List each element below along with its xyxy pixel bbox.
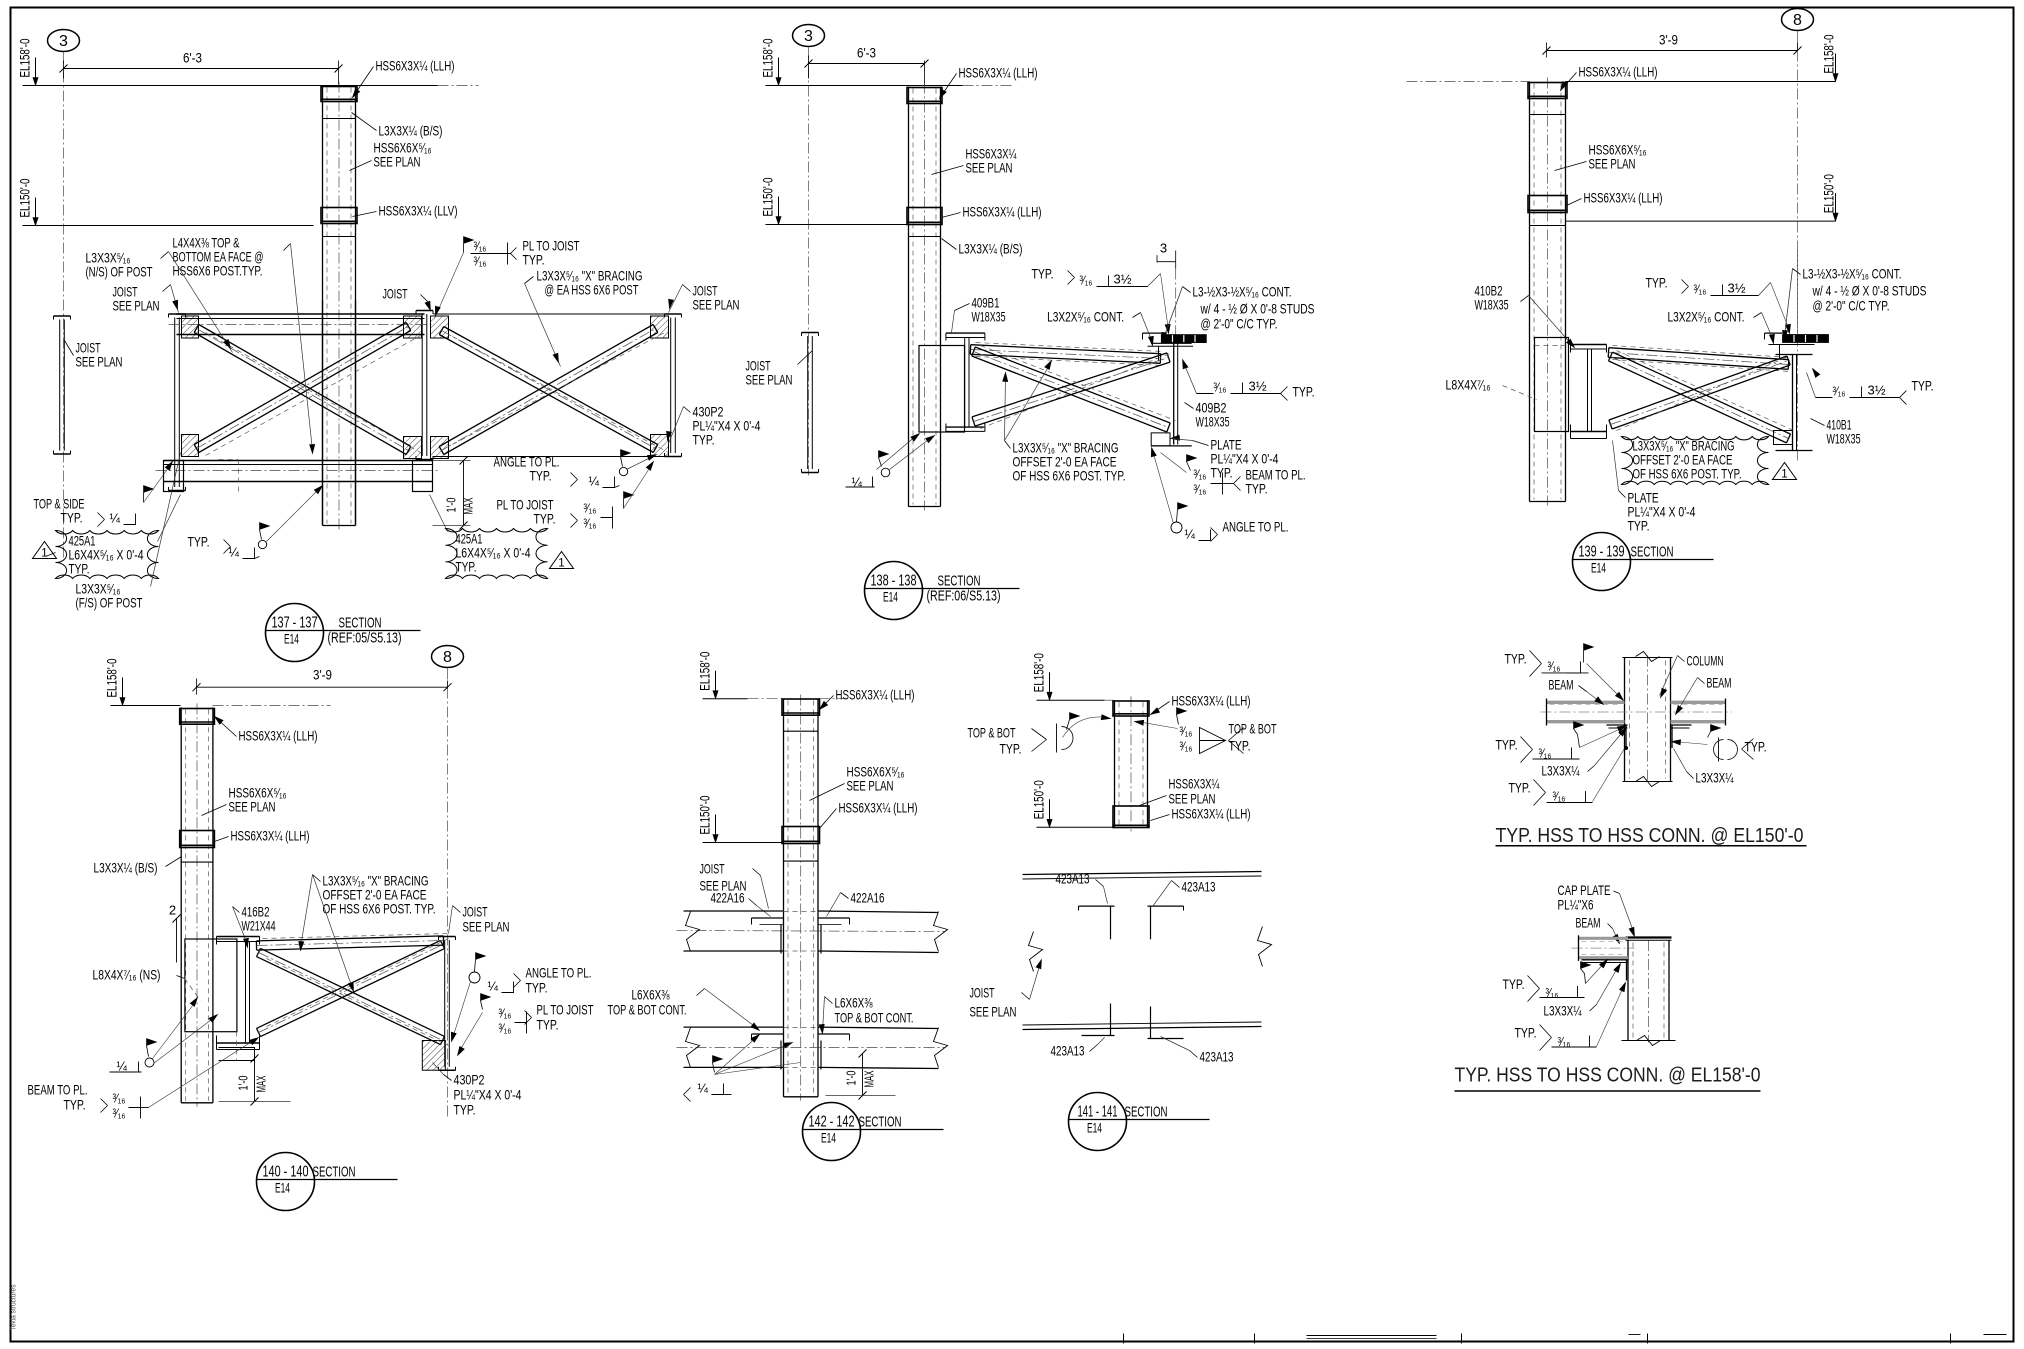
svg-text:SEE PLAN: SEE PLAN	[76, 354, 123, 370]
svg-text:³⁄₁₆: ³⁄₁₆	[113, 1107, 126, 1121]
svg-text:L3-½X3-½X⁵⁄₁₆ CONT.: L3-½X3-½X⁵⁄₁₆ CONT.	[1193, 284, 1292, 300]
svg-text:PL TO JOIST: PL TO JOIST	[537, 1002, 594, 1018]
svg-text:W18X35: W18X35	[972, 309, 1006, 325]
svg-text:(F/S) OF POST: (F/S) OF POST	[76, 595, 143, 611]
svg-text:(N/S) OF POST: (N/S) OF POST	[86, 264, 153, 280]
svg-text:EL158'-0: EL158'-0	[761, 39, 776, 78]
svg-text:L3X3X¼ (B/S): L3X3X¼ (B/S)	[94, 860, 158, 876]
svg-text:3: 3	[59, 33, 68, 50]
svg-text:SECTION: SECTION	[1631, 544, 1674, 561]
svg-text:423A13: 423A13	[1200, 1049, 1234, 1065]
svg-text:³⁄₁₆: ³⁄₁₆	[1194, 483, 1207, 497]
svg-text:TYP.: TYP.	[693, 432, 715, 448]
svg-text:@ 2'-0" C/C TYP.: @ 2'-0" C/C TYP.	[1201, 316, 1278, 332]
svg-text:137 - 137: 137 - 137	[272, 615, 318, 632]
svg-text:BEAM: BEAM	[1549, 677, 1574, 693]
svg-text:³⁄₁₆: ³⁄₁₆	[474, 240, 487, 254]
svg-text:MAX: MAX	[461, 497, 476, 514]
svg-text:L6X4X⁵⁄₁₆ X 0'-4: L6X4X⁵⁄₁₆ X 0'-4	[69, 548, 144, 563]
svg-text:L3X3X¼ (B/S): L3X3X¼ (B/S)	[379, 123, 443, 139]
svg-text:³⁄₁₆: ³⁄₁₆	[1180, 725, 1193, 739]
svg-text:EL150'-0: EL150'-0	[761, 178, 776, 217]
svg-text:W18X35: W18X35	[1196, 414, 1230, 430]
svg-text:1'-0: 1'-0	[844, 1071, 859, 1086]
svg-text:@ 2'-0" C/C TYP.: @ 2'-0" C/C TYP.	[1813, 298, 1890, 314]
svg-text:HSS6X3X¼ (LLV): HSS6X3X¼ (LLV)	[379, 203, 458, 219]
svg-text:SEE PLAN: SEE PLAN	[229, 799, 276, 815]
svg-text:COLUMN: COLUMN	[1687, 653, 1724, 669]
svg-text:EL150'-0: EL150'-0	[1822, 174, 1837, 213]
svg-text:422A16: 422A16	[851, 890, 885, 906]
svg-text:HSS6X3X¼ (LLH): HSS6X3X¼ (LLH)	[839, 800, 918, 816]
svg-text:TYP.: TYP.	[534, 511, 556, 527]
svg-text:TYP.: TYP.	[1505, 651, 1527, 667]
svg-text:TYP.: TYP.	[188, 534, 210, 550]
svg-text:HSS6X3X¼ (LLH): HSS6X3X¼ (LLH)	[959, 65, 1038, 81]
svg-text:HSS6X3X¼ (LLH): HSS6X3X¼ (LLH)	[376, 58, 455, 74]
svg-text:EL158'-0: EL158'-0	[18, 39, 33, 78]
svg-text:E14: E14	[883, 590, 898, 605]
svg-text:2: 2	[169, 903, 176, 918]
svg-text:TYP.: TYP.	[537, 1017, 559, 1033]
svg-text:¼: ¼	[1185, 528, 1196, 542]
svg-text:W18X35: W18X35	[1827, 431, 1861, 447]
svg-text:ANGLE TO PL.: ANGLE TO PL.	[526, 965, 592, 981]
svg-text:¼: ¼	[488, 980, 499, 994]
svg-text:OF HSS 6X6 POST. TYP.: OF HSS 6X6 POST. TYP.	[1013, 468, 1126, 484]
svg-text:HSS6X3X¼ (LLH): HSS6X3X¼ (LLH)	[1584, 190, 1663, 206]
svg-text:³⁄₁₆: ³⁄₁₆	[1214, 381, 1227, 395]
svg-text:L3X3X¼: L3X3X¼	[1542, 763, 1580, 779]
svg-text:PL¼"X4 X 0'-4: PL¼"X4 X 0'-4	[454, 1087, 522, 1103]
svg-text:423A13: 423A13	[1051, 1043, 1085, 1059]
svg-text:³⁄₁₆: ³⁄₁₆	[499, 1007, 512, 1021]
svg-text:¼: ¼	[117, 1060, 128, 1074]
svg-text:L6X6X⅜: L6X6X⅜	[835, 995, 873, 1011]
svg-text:6'-3: 6'-3	[183, 50, 202, 66]
svg-text:8: 8	[443, 649, 452, 666]
svg-text:E14: E14	[1087, 1121, 1102, 1136]
svg-text:W18X35: W18X35	[1475, 297, 1509, 313]
svg-text:MAX: MAX	[862, 1070, 877, 1087]
svg-text:³⁄₁₆: ³⁄₁₆	[1553, 790, 1566, 804]
svg-text:TOP & BOT: TOP & BOT	[1229, 721, 1277, 737]
svg-text:TYP. HSS TO HSS CONN. @ EL150': TYP. HSS TO HSS CONN. @ EL150'-0	[1496, 825, 1804, 847]
svg-text:SEE PLAN: SEE PLAN	[1169, 791, 1216, 807]
svg-text:TYP.: TYP.	[61, 510, 83, 526]
svg-text:L3-½X3-½X⁵⁄₁₆ CONT.: L3-½X3-½X⁵⁄₁₆ CONT.	[1803, 266, 1902, 282]
svg-text:HSS6X3X¼ (LLH): HSS6X3X¼ (LLH)	[963, 204, 1042, 220]
svg-text:EL150'-0: EL150'-0	[698, 796, 713, 835]
svg-text:TYP.: TYP.	[1032, 266, 1054, 282]
svg-text:EL158'-0: EL158'-0	[105, 659, 120, 698]
svg-text:ANGLE TO PL.: ANGLE TO PL.	[1223, 519, 1289, 535]
svg-text:SEE PLAN: SEE PLAN	[113, 298, 160, 314]
svg-text:1'-0: 1'-0	[236, 1076, 251, 1091]
svg-text:³⁄₁₆: ³⁄₁₆	[1548, 660, 1561, 674]
svg-text:TYP. HSS TO HSS CONN. @ EL158': TYP. HSS TO HSS CONN. @ EL158'-0	[1455, 1065, 1761, 1087]
svg-text:L3X3X¼: L3X3X¼	[1544, 1002, 1582, 1018]
svg-text:423A13: 423A13	[1056, 871, 1090, 887]
svg-text:EL150'-0: EL150'-0	[1032, 780, 1047, 819]
svg-text:SEE PLAN: SEE PLAN	[374, 154, 421, 170]
svg-text:W21X44: W21X44	[242, 918, 276, 934]
svg-text:³⁄₁₆: ³⁄₁₆	[1694, 283, 1707, 297]
svg-text:TYP.: TYP.	[64, 1097, 86, 1113]
svg-text:425A1: 425A1	[456, 532, 483, 547]
svg-text:141 - 141: 141 - 141	[1078, 1104, 1118, 1121]
svg-text:TYP.: TYP.	[1646, 275, 1668, 291]
svg-text:SEE PLAN: SEE PLAN	[693, 297, 740, 313]
svg-text:³⁄₁₆: ³⁄₁₆	[1833, 385, 1846, 399]
svg-text:HSS6X3X¼ (LLH): HSS6X3X¼ (LLH)	[1172, 693, 1251, 709]
svg-text:w/ 4 - ½ Ø X 0'-8 STUDS: w/ 4 - ½ Ø X 0'-8 STUDS	[1200, 301, 1315, 317]
svg-text:TYP.: TYP.	[1745, 739, 1767, 755]
svg-text:142 - 142: 142 - 142	[809, 1114, 855, 1131]
svg-text:BEAM: BEAM	[1707, 675, 1732, 691]
svg-text:(REF:06/S5.13): (REF:06/S5.13)	[927, 588, 1001, 605]
svg-text:JOIST: JOIST	[383, 286, 408, 302]
svg-text:³⁄₁₆: ³⁄₁₆	[584, 517, 597, 531]
svg-text:3: 3	[1160, 241, 1167, 256]
svg-text:139 - 139: 139 - 139	[1579, 544, 1625, 561]
svg-text:TOP & BOT CONT.: TOP & BOT CONT.	[835, 1010, 914, 1026]
svg-text:SECTION: SECTION	[313, 1164, 356, 1181]
svg-text:SEE PLAN: SEE PLAN	[847, 778, 894, 794]
svg-text:423A13: 423A13	[1182, 879, 1216, 895]
svg-text:¼: ¼	[110, 512, 121, 526]
svg-text:(REF:05/S5.13): (REF:05/S5.13)	[328, 630, 402, 647]
svg-text:TYP.: TYP.	[454, 1102, 476, 1118]
svg-text:³⁄₁₆: ³⁄₁₆	[584, 502, 597, 516]
svg-text:³⁄₁₆: ³⁄₁₆	[1194, 468, 1207, 482]
svg-text:TYP.: TYP.	[1496, 737, 1518, 753]
svg-text:JOIST: JOIST	[463, 904, 488, 920]
svg-text:TYP.: TYP.	[69, 562, 90, 577]
svg-text:Tekla structures: Tekla structures	[11, 1284, 18, 1330]
svg-text:JOIST: JOIST	[970, 985, 995, 1001]
svg-text:L3X3X¼ (B/S): L3X3X¼ (B/S)	[959, 241, 1023, 257]
svg-text:3½: 3½	[1868, 383, 1886, 398]
svg-text:JOIST: JOIST	[700, 861, 725, 877]
svg-text:HSS6X6 POST.TYP.: HSS6X6 POST.TYP.	[173, 263, 263, 279]
svg-text:SEE PLAN: SEE PLAN	[966, 160, 1013, 176]
svg-text:TYP.: TYP.	[530, 468, 552, 484]
svg-text:L8X4X⁷⁄₁₆: L8X4X⁷⁄₁₆	[1446, 377, 1491, 393]
svg-text:HSS6X3X¼ (LLH): HSS6X3X¼ (LLH)	[836, 687, 915, 703]
svg-text:HSS6X3X¼ (LLH): HSS6X3X¼ (LLH)	[1172, 806, 1251, 822]
svg-text:TYP.: TYP.	[1515, 1025, 1537, 1041]
svg-text:TYP.: TYP.	[1246, 481, 1268, 497]
svg-text:1: 1	[1781, 469, 1787, 481]
svg-text:³⁄₁₆: ³⁄₁₆	[113, 1092, 126, 1106]
svg-text:SEE PLAN: SEE PLAN	[1589, 156, 1636, 172]
svg-text:³⁄₁₆: ³⁄₁₆	[1180, 740, 1193, 754]
svg-text:L3X2X⁵⁄₁₆ CONT.: L3X2X⁵⁄₁₆ CONT.	[1047, 309, 1124, 325]
svg-text:TYP.: TYP.	[1211, 465, 1233, 481]
svg-text:MAX: MAX	[254, 1075, 269, 1092]
svg-text:L8X4X⁷⁄₁₆ (NS): L8X4X⁷⁄₁₆ (NS)	[93, 967, 161, 983]
svg-text:138 - 138: 138 - 138	[871, 573, 917, 590]
svg-text:TOP & BOT CONT.: TOP & BOT CONT.	[608, 1002, 687, 1018]
svg-text:1'-0: 1'-0	[444, 498, 459, 513]
svg-text:³⁄₁₆: ³⁄₁₆	[1539, 747, 1552, 761]
svg-text:TYP.: TYP.	[1293, 384, 1315, 400]
svg-text:³⁄₁₆: ³⁄₁₆	[499, 1022, 512, 1036]
svg-text:L3X3X¼: L3X3X¼	[1696, 770, 1734, 786]
svg-text:1: 1	[41, 548, 47, 560]
svg-text:PL¼"X6: PL¼"X6	[1558, 897, 1594, 913]
svg-text:¼: ¼	[698, 1082, 709, 1096]
svg-text:TYP.: TYP.	[1912, 378, 1934, 394]
svg-text:EL158'-0: EL158'-0	[1032, 653, 1047, 692]
svg-text:TYP.: TYP.	[456, 560, 477, 575]
svg-text:3½: 3½	[1728, 281, 1746, 296]
svg-text:L3X3X⁵⁄₁₆ "X" BRACING: L3X3X⁵⁄₁₆ "X" BRACING	[1633, 439, 1735, 454]
svg-text:422A16: 422A16	[711, 890, 745, 906]
svg-text:3: 3	[804, 28, 813, 45]
svg-text:E14: E14	[821, 1131, 836, 1146]
svg-text:3½: 3½	[1114, 272, 1132, 287]
svg-text:8: 8	[1793, 12, 1802, 29]
svg-text:BEAM TO PL.: BEAM TO PL.	[28, 1082, 88, 1098]
svg-text:OF HSS 6X6 POST. TYP.: OF HSS 6X6 POST. TYP.	[1633, 467, 1742, 482]
svg-text:TYP.: TYP.	[523, 252, 545, 268]
svg-text:3'-9: 3'-9	[1659, 32, 1678, 48]
svg-text:OF HSS 6X6 POST. TYP.: OF HSS 6X6 POST. TYP.	[323, 901, 436, 917]
svg-text:¼: ¼	[589, 475, 600, 489]
svg-text:EL158'-0: EL158'-0	[1822, 35, 1837, 74]
svg-text:SEE PLAN: SEE PLAN	[463, 919, 510, 935]
svg-text:³⁄₁₆: ³⁄₁₆	[1080, 274, 1093, 288]
svg-text:BEAM: BEAM	[1576, 915, 1601, 931]
svg-text:3'-9: 3'-9	[313, 667, 332, 683]
svg-text:EL150'-0: EL150'-0	[18, 179, 33, 218]
svg-text:SECTION: SECTION	[859, 1114, 902, 1131]
svg-text:425A1: 425A1	[69, 534, 96, 549]
svg-text:TYP.: TYP.	[1000, 741, 1022, 757]
svg-text:TYP.: TYP.	[526, 980, 548, 996]
svg-text:E14: E14	[275, 1181, 290, 1196]
svg-text:1: 1	[558, 558, 564, 570]
svg-text:EL158'-0: EL158'-0	[698, 652, 713, 691]
svg-text:L3X2X⁵⁄₁₆ CONT.: L3X2X⁵⁄₁₆ CONT.	[1668, 309, 1745, 325]
svg-text:TYP.: TYP.	[1503, 976, 1525, 992]
svg-text:L6X4X⁵⁄₁₆ X 0'-4: L6X4X⁵⁄₁₆ X 0'-4	[456, 546, 531, 561]
svg-text:3½: 3½	[1249, 379, 1267, 394]
svg-text:HSS6X3X¼: HSS6X3X¼	[1169, 776, 1220, 792]
svg-text:SEE PLAN: SEE PLAN	[970, 1004, 1017, 1020]
svg-text:³⁄₁₆: ³⁄₁₆	[474, 255, 487, 269]
svg-text:HSS6X3X¼ (LLH): HSS6X3X¼ (LLH)	[231, 828, 310, 844]
svg-text:@ EA HSS 6X6 POST: @ EA HSS 6X6 POST	[545, 282, 639, 298]
svg-text:TYP.: TYP.	[1229, 738, 1251, 754]
svg-text:6'-3: 6'-3	[857, 45, 876, 61]
svg-text:TYP.: TYP.	[1509, 780, 1531, 796]
svg-text:430P2: 430P2	[454, 1072, 485, 1088]
svg-text:TYP.: TYP.	[1628, 518, 1650, 534]
svg-text:TOP & BOT: TOP & BOT	[968, 725, 1016, 741]
svg-text:w/ 4 - ½ Ø X 0'-8 STUDS: w/ 4 - ½ Ø X 0'-8 STUDS	[1812, 283, 1927, 299]
svg-text:HSS6X3X¼ (LLH): HSS6X3X¼ (LLH)	[1579, 64, 1658, 80]
svg-text:E14: E14	[1591, 561, 1606, 576]
svg-text:140 - 140: 140 - 140	[263, 1164, 309, 1181]
svg-text:SEE PLAN: SEE PLAN	[746, 372, 793, 388]
svg-text:OFFSET 2'-0 EA FACE: OFFSET 2'-0 EA FACE	[1633, 453, 1733, 468]
svg-text:HSS6X3X¼ (LLH): HSS6X3X¼ (LLH)	[239, 728, 318, 744]
svg-text:¼: ¼	[229, 546, 240, 560]
svg-text:E14: E14	[284, 632, 299, 647]
svg-text:SECTION: SECTION	[1125, 1104, 1168, 1121]
svg-text:L6X6X⅜: L6X6X⅜	[632, 987, 670, 1003]
